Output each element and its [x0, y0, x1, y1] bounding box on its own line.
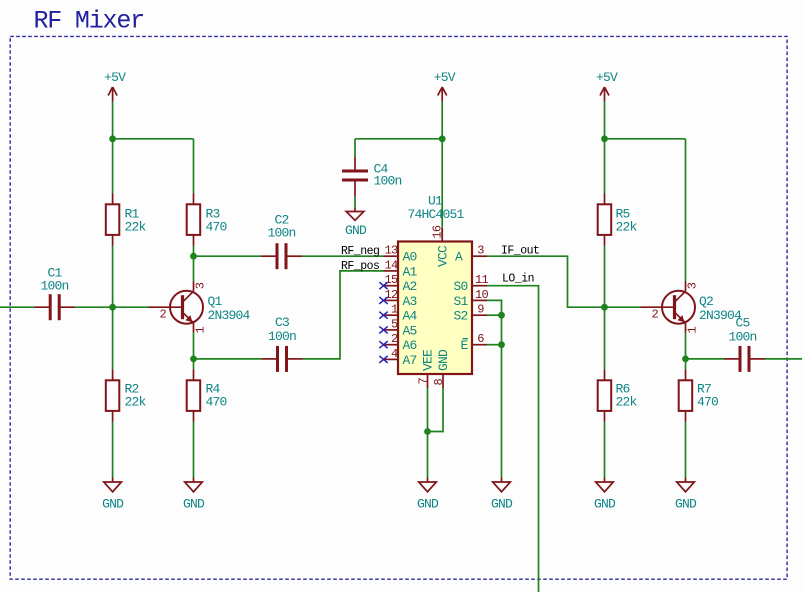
svg-text:13: 13 [384, 244, 398, 258]
wire Q2 emitter to emitter node and R7 [685, 333, 687, 370]
wire C4 to ground [354, 197, 356, 208]
capacitor C2 [261, 212, 302, 269]
svg-text:IF_out: IF_out [501, 245, 539, 258]
svg-text:8: 8 [432, 379, 446, 386]
junction left top rail [109, 135, 116, 142]
junction collector node [190, 253, 197, 260]
svg-text:RF Mixer: RF Mixer [34, 7, 144, 36]
svg-text:3: 3 [686, 282, 700, 289]
wire R1 bottom through base node down to R2 [112, 246, 114, 369]
power symbol +5V (right) [596, 70, 618, 102]
wire pin 11 down off-page (LO_in net) [487, 286, 539, 592]
output wire to right edge [765, 358, 802, 360]
svg-text:7: 7 [417, 378, 431, 385]
ground symbol under R7 [675, 478, 697, 512]
resistor R5 [598, 194, 638, 246]
svg-text:A: A [455, 250, 463, 265]
svg-text:2: 2 [652, 308, 659, 322]
svg-text:11: 11 [475, 273, 489, 287]
input wire from left edge [0, 306, 34, 308]
ground symbol under R4 [183, 478, 205, 512]
wire C1 to base node [75, 306, 148, 308]
U1 pin 14 A1 [384, 258, 418, 279]
svg-text:470: 470 [206, 220, 227, 235]
svg-text:5: 5 [391, 317, 398, 331]
svg-text:12: 12 [384, 288, 398, 302]
wire R6 to ground [604, 422, 606, 478]
U1 pin 11 S0 [453, 273, 488, 294]
capacitor C1 [34, 265, 75, 320]
wire +5V left down to R1 [112, 102, 114, 194]
wire R3 bottom to collector node [193, 246, 195, 256]
svg-text:GND: GND [102, 496, 124, 511]
IC U1 74HC4051 [398, 193, 472, 374]
wire R4 to ground [193, 422, 195, 478]
wire emitter node to C3 [194, 358, 262, 360]
svg-text:470: 470 [697, 395, 718, 410]
junction Q2 base node [601, 304, 608, 311]
ground symbol under R6 [594, 478, 616, 512]
resistor R6 [598, 369, 638, 422]
svg-text:C3: C3 [275, 315, 289, 330]
svg-text:Q2: Q2 [699, 294, 713, 309]
svg-text:A7: A7 [403, 353, 417, 368]
wire middle top rail [355, 138, 442, 140]
wire GND pin down and left to VEE wire [428, 388, 444, 432]
capacitor C5 [724, 316, 765, 372]
U1 pin 10 S1 [453, 288, 488, 309]
U1 pin 1 A4 (NC) [379, 303, 417, 324]
svg-text:+5V: +5V [596, 70, 618, 85]
resistor R1 [106, 194, 147, 246]
svg-text:1: 1 [391, 303, 398, 317]
wire R2 to ground [112, 422, 114, 478]
svg-text:9: 9 [477, 303, 484, 317]
svg-text:10: 10 [475, 288, 489, 302]
svg-text:GND: GND [183, 496, 205, 511]
wire +5V right down to R5 [604, 102, 606, 194]
svg-text:100n: 100n [728, 329, 756, 344]
junction S2 tap [498, 312, 505, 319]
wire pin 10 right then down to ground [487, 300, 502, 477]
junction emitter node [190, 356, 197, 363]
svg-text:A4: A4 [403, 309, 418, 324]
U1 pin 16 VCC top [431, 225, 451, 267]
svg-text:S1: S1 [453, 294, 468, 309]
svg-text:A3: A3 [403, 294, 417, 309]
svg-text:2: 2 [391, 332, 398, 346]
svg-text:100n: 100n [267, 226, 295, 241]
svg-text:RF_neg: RF_neg [341, 245, 379, 258]
wire collector node to Q1 collector [193, 256, 195, 281]
wire C2 to pin 13 [302, 255, 384, 257]
svg-text:Q1: Q1 [208, 294, 223, 309]
wire top rail left to R3 column [113, 138, 194, 140]
svg-text:22k: 22k [125, 395, 147, 410]
U1 pin 7 VEE bottom [417, 349, 436, 388]
junction Q2 emitter node [682, 356, 689, 363]
U1 pin 3 A (output) [455, 244, 487, 265]
wire Q1 emitter to emitter node and R4 [193, 333, 195, 370]
ground symbol under R2 [102, 478, 124, 512]
wire rail corner down to C4 [354, 139, 356, 157]
wire pin 9 to S-column [487, 314, 502, 316]
svg-text:1: 1 [194, 327, 208, 334]
power symbol +5V (left) [104, 70, 126, 102]
svg-text:74HC4051: 74HC4051 [407, 207, 464, 222]
svg-text:100n: 100n [374, 174, 402, 189]
transistor Q1 2N3904 [149, 282, 251, 334]
wire right top rail [605, 138, 686, 140]
U1 pin 5 A5 (NC) [379, 317, 416, 338]
svg-text:2N3904: 2N3904 [208, 308, 251, 323]
wire pin 6 to S-column [487, 344, 502, 346]
svg-text:22k: 22k [616, 220, 638, 235]
U1 pin 9 S2 [453, 303, 487, 324]
ground symbol under C4 [345, 208, 367, 239]
svg-text:A6: A6 [403, 338, 417, 353]
junction right top rail [601, 135, 608, 142]
svg-text:VCC: VCC [436, 245, 451, 267]
resistor R7 [679, 369, 718, 422]
svg-text:1: 1 [686, 327, 700, 334]
svg-text:GND: GND [417, 496, 439, 511]
svg-text:S0: S0 [453, 279, 467, 294]
svg-text:3: 3 [477, 244, 484, 258]
svg-text:15: 15 [384, 273, 398, 287]
capacitor C4 [342, 157, 402, 197]
wire R5 bottom through base node to R6 [604, 246, 606, 369]
svg-text:100n: 100n [40, 278, 68, 293]
svg-text:LO_in: LO_in [502, 273, 534, 286]
svg-text:A1: A1 [403, 264, 418, 279]
U1 pin 4 A7 (NC) [379, 347, 416, 368]
U1 pin 8 GND bottom [432, 349, 451, 388]
junction base node left [109, 304, 116, 311]
svg-text:16: 16 [431, 225, 445, 239]
svg-text:A2: A2 [403, 279, 417, 294]
svg-text:+5V: +5V [104, 70, 126, 85]
svg-text:100n: 100n [268, 329, 296, 344]
ground symbol under U1 [417, 478, 439, 512]
svg-text:RF_pos: RF_pos [341, 260, 379, 273]
svg-text:22k: 22k [616, 395, 638, 410]
svg-text:GND: GND [345, 223, 367, 238]
wire down to Q2 collector [685, 139, 687, 282]
U1 pin 2 A6 (NC) [379, 332, 416, 353]
wire C3 right then up to pin 14 [303, 271, 384, 359]
svg-text:VEE: VEE [421, 349, 436, 371]
wire pin 3 to Q2 base (IF_out net) [487, 256, 641, 307]
U1 pin 12 A3 (NC) [379, 288, 416, 309]
svg-text:14: 14 [384, 258, 398, 272]
transistor Q2 2N3904 [641, 282, 743, 334]
wire R7 to ground [685, 422, 687, 478]
resistor R3 [187, 194, 227, 246]
svg-text:4: 4 [391, 347, 398, 361]
U1 pin 15 A2 (NC) [379, 273, 416, 294]
ground symbol S-column [491, 478, 513, 512]
svg-text:A5: A5 [403, 323, 417, 338]
svg-text:470: 470 [206, 395, 227, 410]
svg-text:GND: GND [594, 496, 616, 511]
svg-text:22k: 22k [125, 220, 147, 235]
resistor R4 [187, 369, 227, 422]
svg-text:GND: GND [491, 496, 513, 511]
capacitor C3 [262, 315, 303, 372]
wire VEE pin down to ground [427, 388, 429, 478]
svg-text:3: 3 [194, 282, 208, 289]
svg-text:E: E [460, 338, 468, 353]
svg-text:GND: GND [436, 349, 451, 371]
svg-text:6: 6 [477, 332, 484, 346]
svg-text:2: 2 [160, 308, 167, 322]
wire +5V middle to VCC pin [441, 102, 443, 236]
junction E tap [498, 341, 505, 348]
resistor R2 [106, 369, 147, 422]
U1 pin 13 A0 [384, 244, 417, 265]
junction middle rail [439, 135, 446, 142]
power symbol +5V (middle) [434, 70, 456, 102]
svg-text:GND: GND [675, 496, 697, 511]
wire collector node to C2 [194, 255, 262, 257]
svg-text:+5V: +5V [434, 70, 456, 85]
junction VEE/GND join [424, 428, 431, 435]
svg-text:S2: S2 [453, 309, 467, 324]
svg-text:A0: A0 [403, 250, 417, 265]
wire emitter node to C5 [686, 358, 725, 360]
U1 pin 6 E (enable, active low) [460, 332, 487, 353]
wire R3 column top [193, 139, 195, 194]
